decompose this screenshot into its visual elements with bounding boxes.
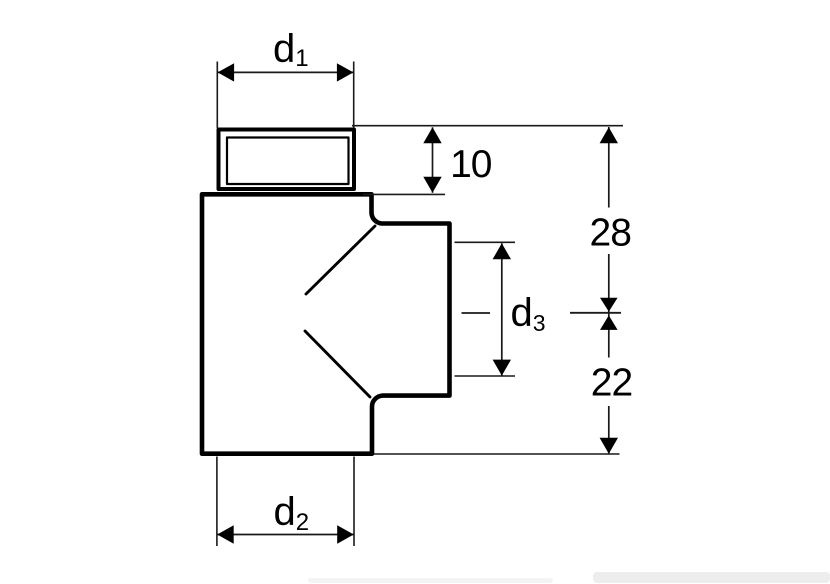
dimension 28 bottom arrowhead at meeting point xyxy=(600,298,618,312)
socket top reference line xyxy=(352,125,623,127)
inner bore lower diagonal line xyxy=(305,331,370,397)
bottom reference line xyxy=(374,453,620,455)
dimension d2 right arrowhead xyxy=(337,525,354,543)
faint scan smudge bottom right xyxy=(593,572,830,583)
dimension d3 bottom extension line xyxy=(455,375,516,377)
dimension 22 bottom arrowhead xyxy=(600,438,618,454)
tee fitting body outline xyxy=(202,194,450,453)
dimension d2 line xyxy=(217,534,354,536)
dimension 10 top arrowhead xyxy=(423,127,441,143)
dimension d1 line xyxy=(217,71,353,73)
branch centerline cross tick at meeting point xyxy=(570,312,621,314)
dimension 22 line lower segment xyxy=(608,406,610,454)
dimension 28 line upper segment xyxy=(608,127,610,208)
svg-text:22: 22 xyxy=(591,362,632,405)
dimension d3 line xyxy=(501,243,503,375)
dimension 22 top arrowhead at meeting point xyxy=(600,315,618,330)
svg-text:10: 10 xyxy=(450,143,492,186)
dimension 10 bottom arrowhead xyxy=(423,177,441,193)
dimension d1 right arrowhead xyxy=(337,63,354,81)
faint scan smudge bottom left xyxy=(308,578,553,583)
dimension d1 right extension line xyxy=(353,62,355,129)
dimension d3 bottom arrowhead xyxy=(493,360,511,376)
dimension 28-22 line middle segment xyxy=(608,254,610,358)
tee fitting top socket outer wall xyxy=(219,130,355,190)
svg-text:28: 28 xyxy=(590,212,631,255)
tee fitting top socket inner wall xyxy=(227,138,349,185)
inner bore upper diagonal line xyxy=(306,226,375,294)
dimension d3 top arrowhead xyxy=(493,243,511,259)
dimension d3 top extension line xyxy=(455,241,516,243)
dimension 28 top arrowhead xyxy=(600,127,618,143)
body top reference line xyxy=(363,193,445,195)
dimension 10 line xyxy=(432,127,434,193)
dimension d1 left extension line xyxy=(216,62,218,129)
dimension d2 left extension line xyxy=(216,457,218,547)
dimension d2 right extension line xyxy=(353,457,355,547)
dimension d1 left arrowhead xyxy=(218,63,235,81)
dimension d2 left arrowhead xyxy=(217,525,234,543)
branch centerline dash left of d3 xyxy=(462,312,491,314)
